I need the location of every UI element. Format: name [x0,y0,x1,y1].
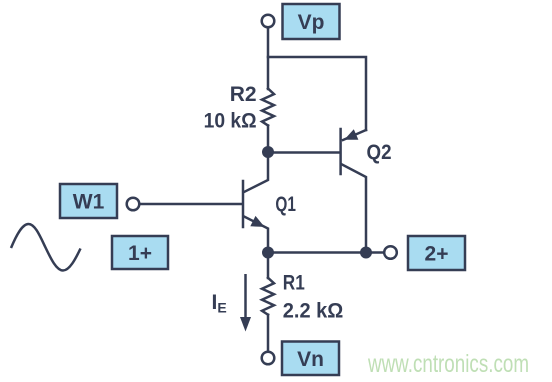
svg-text:www.cntronics.com: www.cntronics.com [367,350,529,378]
wire Vp terminal to R2 top [267,28,270,90]
wire Q1 collector vertical [244,152,268,192]
terminal circle Vp [262,15,275,28]
transistor Q1 bar [242,181,245,227]
wire output node to 2+ terminal [366,251,384,254]
wire node to Q2 base [268,151,340,154]
svg-text:R1: R1 [283,272,305,295]
label box W1 [60,184,117,218]
svg-text:Vn: Vn [297,348,324,371]
label box 1+ [112,236,168,269]
wire R2 bottom to node [267,126,270,153]
transistor Q1 emitter arrowhead [250,216,264,227]
svg-text:Q1: Q1 [275,193,296,216]
resistor R1 [262,278,274,315]
svg-text:1+: 1+ [128,242,152,265]
node junction dot at R2/Q2 base/Q1 collector [262,146,274,158]
svg-text:IE: IE [212,291,227,316]
terminal circle W1 [127,198,140,211]
label box Vp [283,4,340,39]
svg-text:Vp: Vp [298,11,325,34]
svg-text:Q2: Q2 [367,141,392,164]
svg-text:R2: R2 [230,83,257,106]
transistor Q2 emitter diagonal [343,130,366,140]
node junction dot at output [360,247,372,259]
wire emitter node to output node [268,251,366,254]
resistor R2 [262,89,274,126]
wire branch to Q2 emitter rail [268,57,366,130]
terminal circle Vn [262,352,275,365]
transistor Q2 emitter arrowhead (points into bar) [344,129,358,140]
sine wave source symbol [11,224,81,271]
label box 2+ [408,236,465,270]
svg-text:2+: 2+ [425,243,449,266]
transistor Q2 bar [339,129,342,174]
terminal circle 2+ [384,246,397,259]
wire W1 to Q1 base [140,203,242,206]
transistor Q2 collector [342,165,366,253]
svg-text:W1: W1 [73,191,105,214]
label box Vn [282,342,339,376]
wire node to R1 top [267,252,270,278]
current arrow IE [244,274,247,318]
wire R1 bottom to Vn terminal [267,315,270,352]
svg-text:2.2 kΩ: 2.2 kΩ [283,300,344,323]
svg-text:10 kΩ: 10 kΩ [204,110,257,133]
node junction dot at Q1 emitter [262,247,274,259]
transistor Q1 emitter [244,217,268,253]
